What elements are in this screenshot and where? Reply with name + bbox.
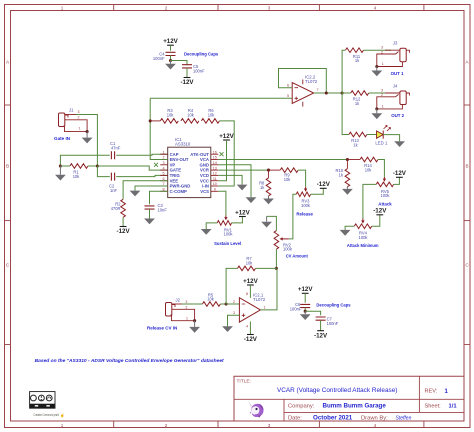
svg-text:7: 7 <box>316 88 318 92</box>
wire VEE pin 6 to R2 <box>123 181 168 200</box>
svg-text:14: 14 <box>213 161 217 165</box>
wire RV3 right to -12V <box>311 188 324 194</box>
svg-text:100k: 100k <box>224 232 234 237</box>
capacitor C2 <box>111 173 114 181</box>
svg-text:ATK-OUT: ATK-OUT <box>190 152 209 157</box>
frame column ticks top <box>113 5 115 11</box>
svg-text:VCS: VCS <box>200 189 209 194</box>
wire VCS pin 9 to RV1 wiper <box>218 191 226 215</box>
svg-text:10nF: 10nF <box>158 208 168 213</box>
svg-text:Gate IN: Gate IN <box>54 136 71 141</box>
resistor R11 <box>346 48 364 53</box>
svg-text:47nF: 47nF <box>111 146 121 151</box>
wire J2 pin3 to R5 <box>172 303 182 305</box>
node C6-C7 junction <box>304 310 307 313</box>
svg-text:3: 3 <box>78 110 80 114</box>
svg-text:-12V: -12V <box>393 170 407 177</box>
resistor R8 <box>268 170 270 178</box>
svg-text:VCAR (Voltage Controlled Attac: VCAR (Voltage Controlled Attack Release) <box>277 387 397 394</box>
wire junction to C5 <box>171 61 188 65</box>
power -12V (IC2.1) <box>247 334 254 336</box>
wire C3 to ground <box>149 209 151 218</box>
connector J4 out2 jack <box>400 91 406 105</box>
ground IC1 GND pin <box>246 197 257 203</box>
potentiometer RV4 attack minimum <box>354 224 371 229</box>
wire C6 to junction <box>304 308 306 312</box>
ground J4 <box>376 109 378 113</box>
node VCA junction <box>346 158 349 161</box>
wire R14 to RV5 wiper <box>378 160 384 177</box>
svg-text:1: 1 <box>79 126 81 130</box>
svg-text:10k: 10k <box>208 112 216 117</box>
svg-text:Steffen: Steffen <box>396 415 412 421</box>
node junction C4-C5 <box>169 59 172 62</box>
svg-text:Based on the "AS3310 - ADSR Vo: Based on the "AS3310 - ADSR Voltage Cont… <box>35 358 224 364</box>
svg-text:Release CV IN: Release CV IN <box>147 326 177 331</box>
wire RV4 left to ground <box>345 226 354 230</box>
wire VCR pin 13 to junction <box>218 169 268 171</box>
svg-text:1: 1 <box>382 105 384 109</box>
svg-text:1: 1 <box>263 305 265 309</box>
svg-text:CAP: CAP <box>170 152 179 157</box>
svg-text:2: 2 <box>233 300 235 304</box>
ground LED <box>394 141 405 147</box>
IC1 left pin stubs <box>160 153 168 155</box>
wire +12V to VCC pin 11 <box>218 140 226 181</box>
svg-text:+12V: +12V <box>235 209 250 216</box>
svg-text:6: 6 <box>287 84 289 88</box>
svg-text:Release: Release <box>296 211 313 216</box>
wire J2 pin1 sleeve <box>171 315 195 321</box>
svg-text:-12V: -12V <box>373 208 387 215</box>
svg-text:J4: J4 <box>393 84 398 89</box>
resistor R6 <box>201 119 219 124</box>
svg-text:15: 15 <box>213 156 217 160</box>
node J3 ground junction <box>375 65 378 68</box>
power -12V (VEE) <box>120 226 127 228</box>
ground J1 <box>86 132 88 138</box>
svg-text:Bumm Bumm Garage: Bumm Bumm Garage <box>323 402 387 409</box>
potentiometer RV5 attack <box>376 182 393 187</box>
svg-text:AS3310: AS3310 <box>175 142 191 147</box>
svg-text:8: 8 <box>246 292 248 296</box>
svg-text:Decoupling Caps: Decoupling Caps <box>184 52 219 57</box>
svg-text:5: 5 <box>162 172 164 176</box>
svg-text:VCC: VCC <box>200 178 209 183</box>
ground IC1 VCD pin <box>237 185 248 191</box>
wire ENV-OUT riser <box>150 98 168 159</box>
wire LED to ground <box>383 135 399 142</box>
node output junction 2 <box>341 91 344 94</box>
node VCR junction <box>267 169 270 172</box>
svg-text:4: 4 <box>374 5 377 10</box>
wire RV4 right to -12V <box>372 215 380 226</box>
svg-text:100k: 100k <box>381 193 391 198</box>
svg-text:TL072: TL072 <box>253 297 266 302</box>
svg-text:CV Amount: CV Amount <box>286 254 309 259</box>
svg-text:470R: 470R <box>111 206 121 211</box>
node J1 ground junction <box>86 130 89 133</box>
svg-text:5: 5 <box>287 94 289 98</box>
node R3 junction <box>149 119 152 122</box>
wire R9 to RV3 wiper <box>298 170 305 187</box>
svg-text:Attack Minimum: Attack Minimum <box>347 243 379 248</box>
svg-text:3: 3 <box>162 161 164 165</box>
svg-text:-12V: -12V <box>314 332 328 339</box>
wire RV1 left to ground <box>206 223 217 229</box>
svg-text:Creative Commons yeah!: Creative Commons yeah! <box>34 413 60 417</box>
svg-text:2: 2 <box>78 115 80 119</box>
svg-text:100k: 100k <box>283 247 293 252</box>
wire output to R11 row <box>342 50 345 93</box>
ground PWR-GND <box>130 191 141 197</box>
potentiometer RV2 cv amount <box>274 231 279 250</box>
svg-text:2: 2 <box>165 423 168 428</box>
wire R7 feedback drop <box>226 268 237 304</box>
wire C2 to TRIG pin 5 <box>116 175 168 176</box>
svg-text:12: 12 <box>213 172 217 176</box>
svg-text:16: 16 <box>213 150 217 154</box>
svg-text:100nF: 100nF <box>327 321 339 326</box>
svg-text:VCR: VCR <box>200 168 209 173</box>
ground R10 <box>346 187 348 189</box>
svg-text:C-COMP: C-COMP <box>170 189 187 194</box>
power -12V (bottom decoupling) <box>317 330 324 332</box>
ground J2 <box>194 321 196 327</box>
svg-text:OUT 2: OUT 2 <box>391 113 404 118</box>
svg-text:GATE: GATE <box>170 168 182 173</box>
svg-text:Sheet:: Sheet: <box>425 403 442 409</box>
svg-text:J3: J3 <box>393 41 398 46</box>
power -12V (top decoupling) <box>184 77 191 79</box>
svg-text:4: 4 <box>162 166 164 170</box>
svg-text:3: 3 <box>268 5 271 10</box>
svg-text:Sustain Level: Sustain Level <box>214 241 241 246</box>
wire J1 pin1 sleeve <box>64 126 88 132</box>
wire GND pin 14 to ground <box>218 165 251 198</box>
svg-text:TITLE:: TITLE: <box>237 379 251 385</box>
wire R2 to -12V <box>122 217 124 226</box>
ground (decoupling) <box>170 61 172 64</box>
ground RV2 top <box>266 216 268 221</box>
wire RV2 bottom to junction <box>275 249 277 268</box>
svg-text:VCD: VCD <box>200 173 209 178</box>
svg-text:3: 3 <box>268 423 271 428</box>
op chip IC1 AS3310 body <box>168 147 211 197</box>
svg-text:Date:: Date: <box>288 415 302 421</box>
svg-text:100k: 100k <box>359 235 369 240</box>
svg-text:4: 4 <box>374 423 377 428</box>
wire C-COMP pin 8 to C3 <box>150 191 168 204</box>
ground C6 <box>304 311 306 314</box>
wire junction to pin 2 <box>226 303 239 305</box>
node output junction 1 <box>325 91 328 94</box>
connector J2 release jack <box>166 303 172 317</box>
capacitor C7 <box>316 317 326 320</box>
wire VCA pin 15 <box>218 159 347 161</box>
no-connect X pin 16 ATK-OUT <box>220 152 224 156</box>
resistor R14 <box>347 159 360 161</box>
svg-text:1: 1 <box>162 150 164 154</box>
title block outline <box>234 376 464 421</box>
node inverting input junction <box>225 302 228 305</box>
ground R8 <box>268 196 270 199</box>
wire junction to C7 <box>305 311 320 315</box>
wire non-inverting to ground <box>228 315 240 326</box>
power +12V (bottom decoupling) <box>302 292 309 294</box>
svg-text:100nF: 100nF <box>290 307 302 312</box>
wire gate to C2 branch <box>97 166 109 177</box>
frame row ticks right <box>464 104 470 106</box>
wire IC2.1 output <box>260 268 277 310</box>
svg-text:100k: 100k <box>301 203 311 208</box>
svg-text:-12V: -12V <box>244 336 258 343</box>
node R7-RV2-output junction <box>275 267 278 270</box>
wire C1 to CAP pin 1 <box>116 154 168 155</box>
unicorn logo <box>248 401 263 418</box>
capacitor C4 <box>166 52 176 55</box>
svg-text:11: 11 <box>213 177 217 181</box>
wire VCD pin 12 to ground <box>218 175 242 184</box>
power +12V (IC2.1) <box>247 284 254 286</box>
svg-text:B: B <box>6 164 9 169</box>
capacitor C6 <box>300 304 310 307</box>
svg-text:☝: ☝ <box>60 413 64 418</box>
resistor R1 <box>70 164 88 169</box>
svg-text:PWR-GND: PWR-GND <box>170 184 191 189</box>
svg-text:4: 4 <box>246 324 248 328</box>
svg-text:J2: J2 <box>176 297 181 302</box>
power +12V (RV1) <box>239 216 246 218</box>
wire J4 pin2 down <box>377 97 391 109</box>
wire RV5 right to -12V <box>394 177 400 184</box>
wire J3 pin2 down <box>377 54 391 67</box>
svg-text:-12V: -12V <box>317 181 331 188</box>
wire output to R13 row <box>342 93 349 135</box>
svg-text:10k: 10k <box>207 297 215 302</box>
svg-text:Drawn By:: Drawn By: <box>361 415 388 421</box>
resistor R4 <box>181 119 199 124</box>
wire IC2.2 feedback <box>279 69 327 94</box>
power -12V (RV4) <box>376 214 383 216</box>
wire C4 to junction <box>170 56 172 61</box>
svg-text:-12V: -12V <box>117 228 131 235</box>
wire RV1 right to +12V <box>232 217 243 223</box>
wire J1 pin2 to pin1 <box>65 120 87 132</box>
ground C3 <box>144 219 155 225</box>
svg-text:+12V: +12V <box>163 38 178 45</box>
LED 1 <box>377 131 384 138</box>
svg-text:Attack: Attack <box>378 202 392 207</box>
svg-text:LED 1: LED 1 <box>375 140 388 145</box>
svg-text:GND: GND <box>200 162 209 167</box>
IC1 right pin stubs <box>211 153 219 155</box>
wire +12V to C6 <box>304 293 306 302</box>
node gate junction <box>96 164 99 167</box>
svg-text:3: 3 <box>381 46 383 50</box>
svg-text:REV:: REV: <box>425 389 438 395</box>
frame column ticks bottom <box>113 421 115 428</box>
svg-text:13: 13 <box>213 166 217 170</box>
svg-text:100nF: 100nF <box>193 69 205 74</box>
svg-text:1: 1 <box>61 5 64 10</box>
resistor R9 <box>269 169 281 171</box>
wire ENV-OUT rail to op-amp <box>150 97 292 99</box>
svg-text:+12V: +12V <box>298 286 313 293</box>
wire RV5 left to RV4 wiper <box>363 184 376 218</box>
svg-text:1: 1 <box>186 316 188 320</box>
wire J1 pin3 gate <box>65 114 76 116</box>
resistor R5 <box>202 302 220 307</box>
wire J4 pin1 sleeve <box>377 105 403 109</box>
ground R1 <box>59 166 61 175</box>
svg-text:I-IN: I-IN <box>202 184 209 189</box>
svg-text:J1: J1 <box>69 108 74 113</box>
creative commons badge <box>30 392 55 409</box>
wire C7 to -12V <box>320 320 322 331</box>
capacitor C1 <box>111 151 114 159</box>
wire +12V to pin 8 <box>249 285 251 298</box>
ground J3 <box>376 67 378 71</box>
ground RV1 <box>201 229 212 235</box>
svg-text:1: 1 <box>61 423 64 428</box>
wire +12V to C4 <box>170 45 172 50</box>
svg-text:VP: VP <box>170 162 176 167</box>
no-connect X pin 3 VP <box>154 163 158 167</box>
wire RV2 top to ground <box>267 216 277 230</box>
svg-text:10k: 10k <box>167 112 175 117</box>
svg-text:VCA: VCA <box>200 157 209 162</box>
wire pin 4 to -12V <box>249 322 251 335</box>
svg-text:1nF: 1nF <box>110 188 118 193</box>
svg-text:3: 3 <box>233 311 235 315</box>
wire gate to GATE pin 4 <box>97 166 167 170</box>
svg-text:10k: 10k <box>246 261 254 266</box>
svg-text:100nF: 100nF <box>153 56 165 61</box>
svg-text:10: 10 <box>213 182 217 186</box>
node gate-R1 left junction <box>59 164 62 167</box>
op-amp IC2.2 TL072 <box>292 83 314 104</box>
svg-text:10k: 10k <box>73 174 81 179</box>
svg-text:10k: 10k <box>284 177 292 182</box>
connector J1 gate jack <box>59 113 65 127</box>
node J4 ground junction <box>375 107 378 110</box>
wire R6 to I-IN pin 10 <box>218 121 234 186</box>
resistor R12 <box>342 92 351 94</box>
svg-text:TL072: TL072 <box>305 79 318 84</box>
frame row ticks left <box>5 104 11 106</box>
svg-text:VEE: VEE <box>170 178 179 183</box>
resistor R2 <box>121 199 126 217</box>
svg-text:3: 3 <box>381 89 383 93</box>
ground RV4 <box>340 230 351 236</box>
resistor R13 <box>349 132 367 137</box>
svg-text:Decoupling Caps: Decoupling Caps <box>316 302 351 307</box>
capacitor C3 <box>145 206 155 209</box>
svg-text:1/1: 1/1 <box>449 403 458 409</box>
power +12V (top decoupling) <box>167 44 174 46</box>
wire J3 pin1 sleeve <box>377 62 403 67</box>
node J2 ground junction <box>193 319 196 322</box>
svg-text:TRIG: TRIG <box>170 173 181 178</box>
svg-text:Company:: Company: <box>288 403 315 409</box>
resistor R3 <box>150 120 160 122</box>
potentiometer RV3 release <box>296 192 310 197</box>
ground IC2.1 non-inverting <box>222 326 233 332</box>
power -12V (RV5) <box>396 176 403 178</box>
svg-text:B: B <box>465 164 468 169</box>
svg-text:October 2021: October 2021 <box>313 414 353 421</box>
power +12V (IC1 VCC) <box>223 139 230 141</box>
wire IC2.2 output <box>314 92 342 94</box>
resistor R7 <box>238 266 256 271</box>
svg-text:2: 2 <box>165 5 168 10</box>
wire CAP net to ground riser <box>60 155 109 166</box>
svg-text:+12V: +12V <box>243 278 258 285</box>
wire PWR-GND pin 7 to ground <box>135 186 168 191</box>
wire C5 to -12V <box>186 68 188 78</box>
op-amp IC2.1 TL072 <box>239 298 260 322</box>
svg-text:+12V: +12V <box>219 133 234 140</box>
capacitor C5 <box>182 65 192 68</box>
svg-text:ENV-OUT: ENV-OUT <box>170 157 189 162</box>
svg-text:-12V: -12V <box>180 79 194 86</box>
resistor R10 <box>346 160 348 169</box>
connector J3 out1 jack <box>400 48 406 62</box>
svg-text:10k: 10k <box>365 168 373 173</box>
power -12V (RV3) <box>320 187 327 189</box>
wire J2 pin2 down <box>172 309 195 320</box>
svg-text:10k: 10k <box>187 112 195 117</box>
svg-text:OUT 1: OUT 1 <box>391 71 404 76</box>
potentiometer RV1 sustain <box>217 221 231 226</box>
svg-text:9: 9 <box>214 188 216 192</box>
wire RV3 left to RV2 wiper <box>289 194 296 239</box>
svg-text:1: 1 <box>382 62 384 66</box>
